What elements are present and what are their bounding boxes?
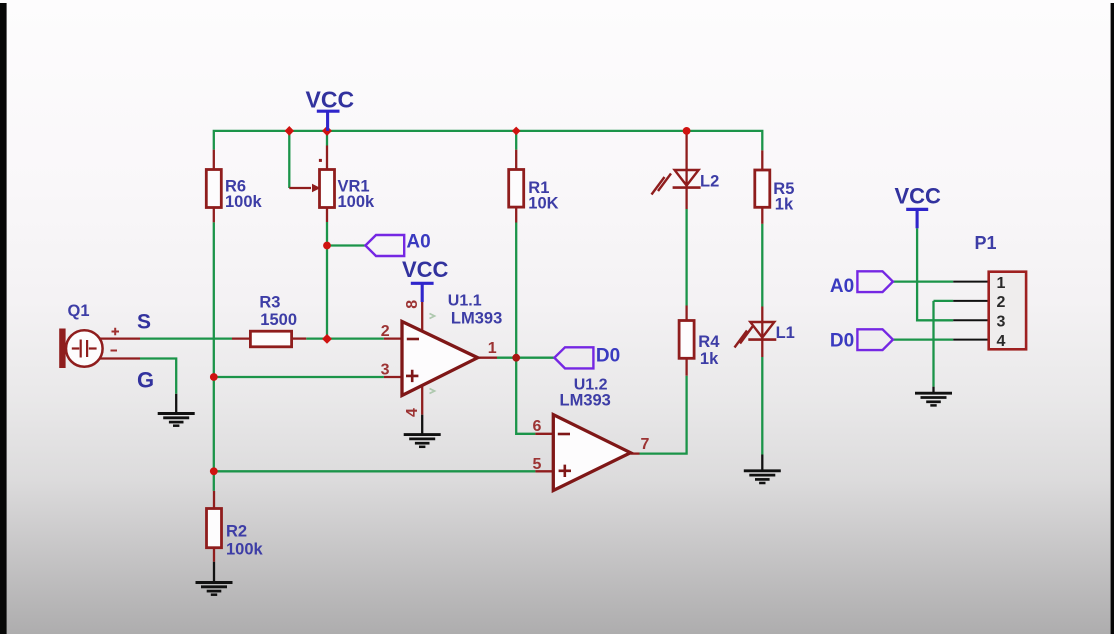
svg-text:1500: 1500: [260, 311, 297, 329]
wire VR1 top stub: [326, 131, 328, 146]
wire R5 to L1: [761, 224, 763, 307]
pin opamp4: [421, 384, 423, 415]
pin opamp3: [384, 376, 401, 378]
svg-text:VCC: VCC: [895, 184, 942, 209]
svg-text:3: 3: [997, 314, 1006, 331]
wire left column: [213, 222, 215, 491]
pin mic G: [100, 357, 140, 359]
resistor R1: [509, 170, 524, 208]
svg-text:D0: D0: [830, 331, 854, 352]
svg-text:VCC: VCC: [306, 86, 355, 112]
svg-text:R4: R4: [698, 333, 720, 351]
letterbox bar right: [1111, 3, 1114, 634]
pin R1 bottom: [515, 207, 517, 222]
pin R3 left: [232, 337, 250, 339]
LED L1: [735, 322, 777, 348]
junction pin1 node: [512, 354, 520, 362]
port A0 left: [365, 235, 404, 256]
pin R4 bottom: [685, 358, 687, 375]
microphone capacitor symbol: [72, 340, 97, 358]
ground L1: [744, 471, 781, 483]
wire VR1 bottom to R3 junction: [326, 222, 328, 339]
wire R2 to ground (black): [213, 562, 215, 582]
svg-text:8: 8: [404, 300, 421, 309]
pin R5 bottom: [761, 207, 763, 224]
wire L1 ground stub: [761, 455, 763, 471]
P1 pin line 2: [953, 300, 989, 302]
pin R4 top: [685, 306, 687, 321]
junction pin5: [210, 467, 218, 475]
svg-text:7: 7: [641, 436, 650, 453]
svg-text:S: S: [137, 311, 151, 334]
pin R1 top: [515, 150, 517, 170]
wire mic ground stub: [175, 394, 177, 413]
pin R6 bottom: [213, 208, 215, 223]
pin opamp1: [478, 357, 497, 359]
wire L1 to ground: [761, 357, 763, 455]
port A0 right: [857, 271, 893, 292]
svg-text:1k: 1k: [700, 350, 719, 368]
wire D0 to P1 pin4: [893, 338, 953, 340]
resistor R4: [679, 321, 694, 359]
svg-text:G: G: [137, 368, 154, 393]
wire P1 pin2 to ground: [934, 301, 954, 387]
wire pin1 to D0: [497, 357, 554, 359]
junction L2/top: [683, 127, 691, 135]
wire top rail: [214, 131, 763, 151]
svg-text:VCC: VCC: [402, 257, 449, 282]
microphone body bar: [59, 329, 65, 369]
polarity minus: [111, 350, 118, 352]
svg-text:L1: L1: [776, 324, 795, 342]
svg-text:R2: R2: [226, 523, 247, 541]
svg-text:L2: L2: [700, 172, 719, 190]
pin L1 anode: [761, 307, 763, 340]
wire mic G to ground: [140, 359, 176, 394]
resistor R3: [250, 331, 291, 347]
wire R1 bottom to pin1 node: [515, 223, 517, 358]
svg-text:Q1: Q1: [68, 302, 90, 320]
wire A0 to P1 pin1: [893, 280, 953, 282]
wire L2 to R4: [685, 209, 687, 306]
svg-text:A0: A0: [406, 231, 430, 252]
polarity plus: [111, 328, 120, 351]
pin L2 anode: [685, 131, 687, 188]
pin L1 cathode: [761, 340, 763, 357]
power VCC top: [317, 111, 340, 131]
svg-text:4: 4: [997, 333, 1006, 350]
svg-text:D0: D0: [596, 345, 620, 366]
pin R6 top: [213, 150, 215, 170]
junction R3/pin2: [322, 334, 332, 344]
wire pin3: [214, 376, 384, 378]
wire VR1 wiper branch vertical: [288, 131, 290, 188]
wire R1 top stub: [515, 131, 517, 150]
svg-text:A0: A0: [830, 276, 854, 297]
wire node1 down to pin6: [516, 358, 535, 434]
resistor VR1 body: [320, 170, 335, 208]
svg-text:2: 2: [997, 294, 1006, 311]
junction wiper/top: [285, 126, 294, 136]
svg-text:100k: 100k: [226, 541, 264, 559]
LED L2: [652, 170, 701, 195]
svg-text:LM393: LM393: [451, 309, 502, 327]
pin R2 bottom: [213, 548, 215, 562]
pin opamp2: [384, 337, 401, 339]
P1 pin line 4: [953, 339, 989, 341]
P1 pin line 1: [953, 281, 989, 283]
svg-text:U1.1: U1.1: [448, 293, 482, 310]
wire VCC to P1 pin3: [917, 228, 953, 320]
pin direction marks U1.1: [430, 314, 435, 394]
power VCC opamp8: [411, 283, 434, 302]
ground opamp4: [404, 435, 441, 447]
microphone circle: [66, 330, 103, 367]
ground R2: [196, 583, 233, 595]
svg-text:5: 5: [533, 456, 542, 473]
svg-text:100k: 100k: [225, 193, 263, 211]
svg-text:1k: 1k: [775, 196, 794, 214]
potentiometer VR1 wiper arrow: [289, 159, 322, 192]
wire R4 to pin7: [640, 376, 687, 454]
svg-text:1: 1: [997, 275, 1006, 292]
P1 pin line 3: [953, 319, 989, 321]
pin VR1 bottom: [326, 208, 328, 223]
svg-text:2: 2: [381, 323, 390, 340]
svg-text:4: 4: [404, 408, 421, 417]
svg-text:6: 6: [533, 418, 542, 435]
op-amp U1.2: [553, 415, 630, 491]
pin R2 top: [213, 491, 215, 509]
pin VR1 top: [326, 146, 328, 170]
junction A0: [323, 242, 331, 250]
port D0 right: [857, 329, 893, 350]
ground mic: [158, 414, 195, 426]
wire mic S to R3: [140, 337, 232, 339]
pin opamp8: [421, 302, 423, 332]
junction pin3: [210, 373, 218, 381]
wire pin5: [214, 470, 536, 472]
pin opamp5: [535, 470, 553, 472]
wire opamp4 ground stub: [421, 415, 423, 435]
wire A0 branch: [327, 244, 365, 246]
svg-text:R3: R3: [259, 294, 280, 312]
svg-text:100k: 100k: [338, 193, 376, 211]
big blue labels: [137, 86, 354, 392]
svg-text:P1: P1: [975, 233, 997, 253]
ground P1: [915, 393, 952, 405]
junction VCC/top: [322, 126, 332, 136]
resistor R6: [206, 170, 221, 208]
pin R3 right: [292, 337, 307, 339]
resistor R2: [207, 509, 222, 548]
wire P1 ground stub: [932, 387, 934, 393]
port name labels: [406, 231, 854, 366]
port D0 left: [554, 347, 593, 368]
wire R3 to pin2: [306, 337, 384, 339]
pin mic S: [100, 337, 140, 339]
pin number labels: [381, 300, 650, 473]
power VCC P1: [906, 209, 928, 228]
letterbox bar left: [0, 3, 7, 634]
junction R1/top: [512, 127, 521, 136]
pin L2 cathode: [685, 188, 687, 209]
svg-text:1: 1: [488, 340, 497, 357]
pin R5 top: [761, 150, 763, 170]
svg-text:10K: 10K: [528, 195, 558, 213]
svg-text:3: 3: [381, 361, 390, 378]
pin opamp7: [631, 452, 640, 454]
resistor R5: [755, 170, 770, 207]
svg-text:LM393: LM393: [560, 391, 611, 409]
op-amp U1.1: [402, 322, 478, 396]
pin opamp6: [535, 433, 553, 435]
